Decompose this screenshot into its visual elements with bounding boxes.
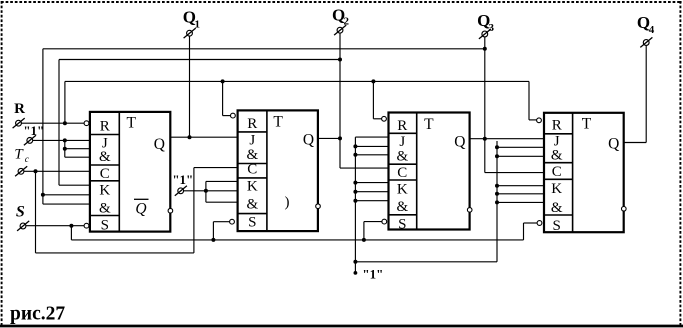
junction Q1 riser: [188, 135, 192, 139]
U3 inverted input circle R: [382, 116, 387, 121]
svg-text:&: &: [396, 149, 408, 165]
svg-text:S: S: [248, 215, 256, 231]
svg-text:C: C: [397, 165, 407, 181]
junction U4 K2: [495, 192, 499, 196]
wire net Q4 (U4 Q to terminal Q4): [624, 45, 646, 142]
wire net Q3 (U3 Q to U4 J1, U4 C, terminal Q3, net A): [470, 37, 544, 173]
svg-text:C: C: [552, 164, 562, 180]
junction S tap U2: [211, 238, 215, 242]
junction U3 K3: [353, 199, 357, 203]
svg-text:Q: Q: [608, 135, 619, 152]
U2 pin labels R J & C K & S: [246, 116, 258, 231]
U2 inverted input circle R: [231, 113, 236, 118]
svg-text:T: T: [424, 116, 434, 133]
svg-text:R: R: [552, 118, 562, 134]
wire net "1" second (to U2 K1,K2,K3): [184, 181, 237, 202]
U1 inverted output circle: [168, 208, 173, 213]
U1 inverted input circle S: [84, 223, 89, 228]
terminal "1" first: [23, 123, 44, 145]
wire net Tc (clock to U1 C and U2 C): [24, 168, 237, 253]
junction U2 K2: [204, 189, 208, 193]
svg-text:"1": "1": [23, 123, 44, 138]
wire net B (Q2 feedback to U1 K1): [59, 58, 342, 186]
U2 inverted input circle S: [230, 219, 235, 224]
junction R-riser: [63, 121, 67, 125]
flip-flop U2 (T-trigger DD2): [230, 110, 321, 231]
svg-text:"1": "1": [172, 172, 193, 187]
terminal R: [13, 101, 25, 128]
svg-text:R: R: [397, 118, 407, 134]
svg-text:Q: Q: [303, 132, 314, 149]
svg-text:&: &: [246, 196, 258, 212]
wire net "1" third (to U3 J,K and U4 J2,J3,K): [353, 137, 543, 275]
U1 pin labels R J & C K & S: [99, 118, 111, 233]
junction Q3 riser: [483, 137, 487, 141]
svg-text:&: &: [551, 200, 563, 216]
svg-text:R: R: [247, 116, 257, 132]
svg-text:S: S: [398, 216, 406, 232]
U3 pin labels R J & C K & S: [396, 118, 408, 232]
svg-text:S: S: [101, 218, 109, 234]
wire net Q2 (U2 Q to U3 C, terminal Q2, net B): [318, 33, 388, 168]
flip-flop U1 (T-trigger DD1): [84, 112, 173, 234]
svg-text:&: &: [246, 147, 258, 163]
junction U3 K1: [353, 181, 357, 185]
junction U1 J1: [63, 138, 67, 142]
terminal Q2: [332, 5, 349, 35]
svg-text:T: T: [126, 114, 136, 131]
svg-text:2: 2: [343, 15, 349, 27]
wire net S (terminal S to all S inputs): [26, 222, 537, 242]
svg-text:R: R: [14, 101, 25, 117]
svg-text:C: C: [247, 162, 257, 178]
terminal endpoint dot: [354, 271, 358, 275]
U4 inverted output circle: [622, 207, 627, 212]
junction Tc riser: [34, 169, 38, 173]
svg-text:&: &: [396, 199, 408, 215]
junction R tap U3: [371, 79, 375, 83]
flip-flop U4 (T-trigger DD4): [537, 113, 627, 234]
svg-text:Q: Q: [454, 133, 465, 150]
svg-text:3: 3: [488, 22, 494, 34]
wire net Q1 (U1 Q to U2 J1 and terminal Q1): [170, 36, 237, 139]
U4 inverted input circle R: [537, 118, 542, 123]
U3 inverted input circle S: [382, 219, 387, 224]
svg-text:K: K: [247, 178, 258, 194]
junction S tap U3: [362, 238, 366, 242]
junction U1 J2: [63, 147, 67, 151]
wire net R (terminal R to all R inputs): [21, 79, 536, 125]
svg-text:&: &: [551, 147, 563, 163]
U3 inverted output circle: [467, 208, 472, 213]
svg-text:Q: Q: [154, 136, 165, 153]
label "1" third: [362, 266, 383, 281]
junction U4 K1: [495, 184, 499, 188]
junction S riser: [69, 224, 73, 228]
svg-text:): ): [285, 194, 290, 210]
junction net1 split: [353, 260, 357, 264]
U2 inverted output circle: [316, 204, 321, 209]
svg-text:K: K: [551, 181, 562, 197]
junction U3 J3: [353, 153, 357, 157]
svg-text:T: T: [273, 114, 283, 131]
terminal Q1: [183, 8, 200, 38]
junction Q2 riser: [338, 136, 342, 140]
svg-text:S: S: [16, 204, 25, 221]
U4 inverted input circle S: [537, 221, 542, 226]
svg-text:K: K: [397, 181, 408, 197]
junction U4 J3: [495, 154, 499, 158]
svg-text:&: &: [99, 201, 111, 217]
terminal "1" second: [172, 172, 193, 196]
junction U1 K2: [41, 193, 45, 197]
svg-text:рис.27: рис.27: [10, 304, 65, 325]
svg-text:&: &: [99, 149, 111, 165]
U4 pin labels R J & C K & S: [551, 118, 563, 234]
svg-text:Q: Q: [135, 201, 146, 218]
flip-flop U3 (T-trigger DD3): [382, 113, 472, 233]
svg-text:1: 1: [195, 18, 201, 30]
junction U3 J2: [353, 144, 357, 148]
wire net A (Q3 feedback to U1 K2,K3): [41, 47, 487, 204]
svg-text:R: R: [100, 118, 110, 134]
junction at Q3 riser: [483, 47, 487, 51]
svg-text:S: S: [553, 218, 561, 234]
svg-text:K: K: [99, 182, 110, 198]
svg-text:C: C: [100, 166, 110, 182]
svg-text:T: T: [582, 115, 592, 132]
svg-text:"1": "1": [362, 266, 383, 281]
junction U3 K2: [353, 190, 357, 194]
caption рис.27: [10, 304, 65, 325]
terminal Q3: [477, 11, 494, 39]
junction U4 J2: [495, 145, 499, 149]
terminal S: [16, 204, 29, 231]
junction U4 K3: [495, 200, 499, 204]
junction at Q2 riser: [338, 58, 342, 62]
U1 inverted input circle R: [84, 121, 89, 126]
junction R tap U2: [221, 79, 225, 83]
terminal Tc: [14, 147, 29, 177]
terminal Q4: [637, 13, 655, 48]
svg-text:4: 4: [649, 24, 655, 36]
wire net "1" first (to U1 J1,J2,J3): [33, 138, 89, 157]
